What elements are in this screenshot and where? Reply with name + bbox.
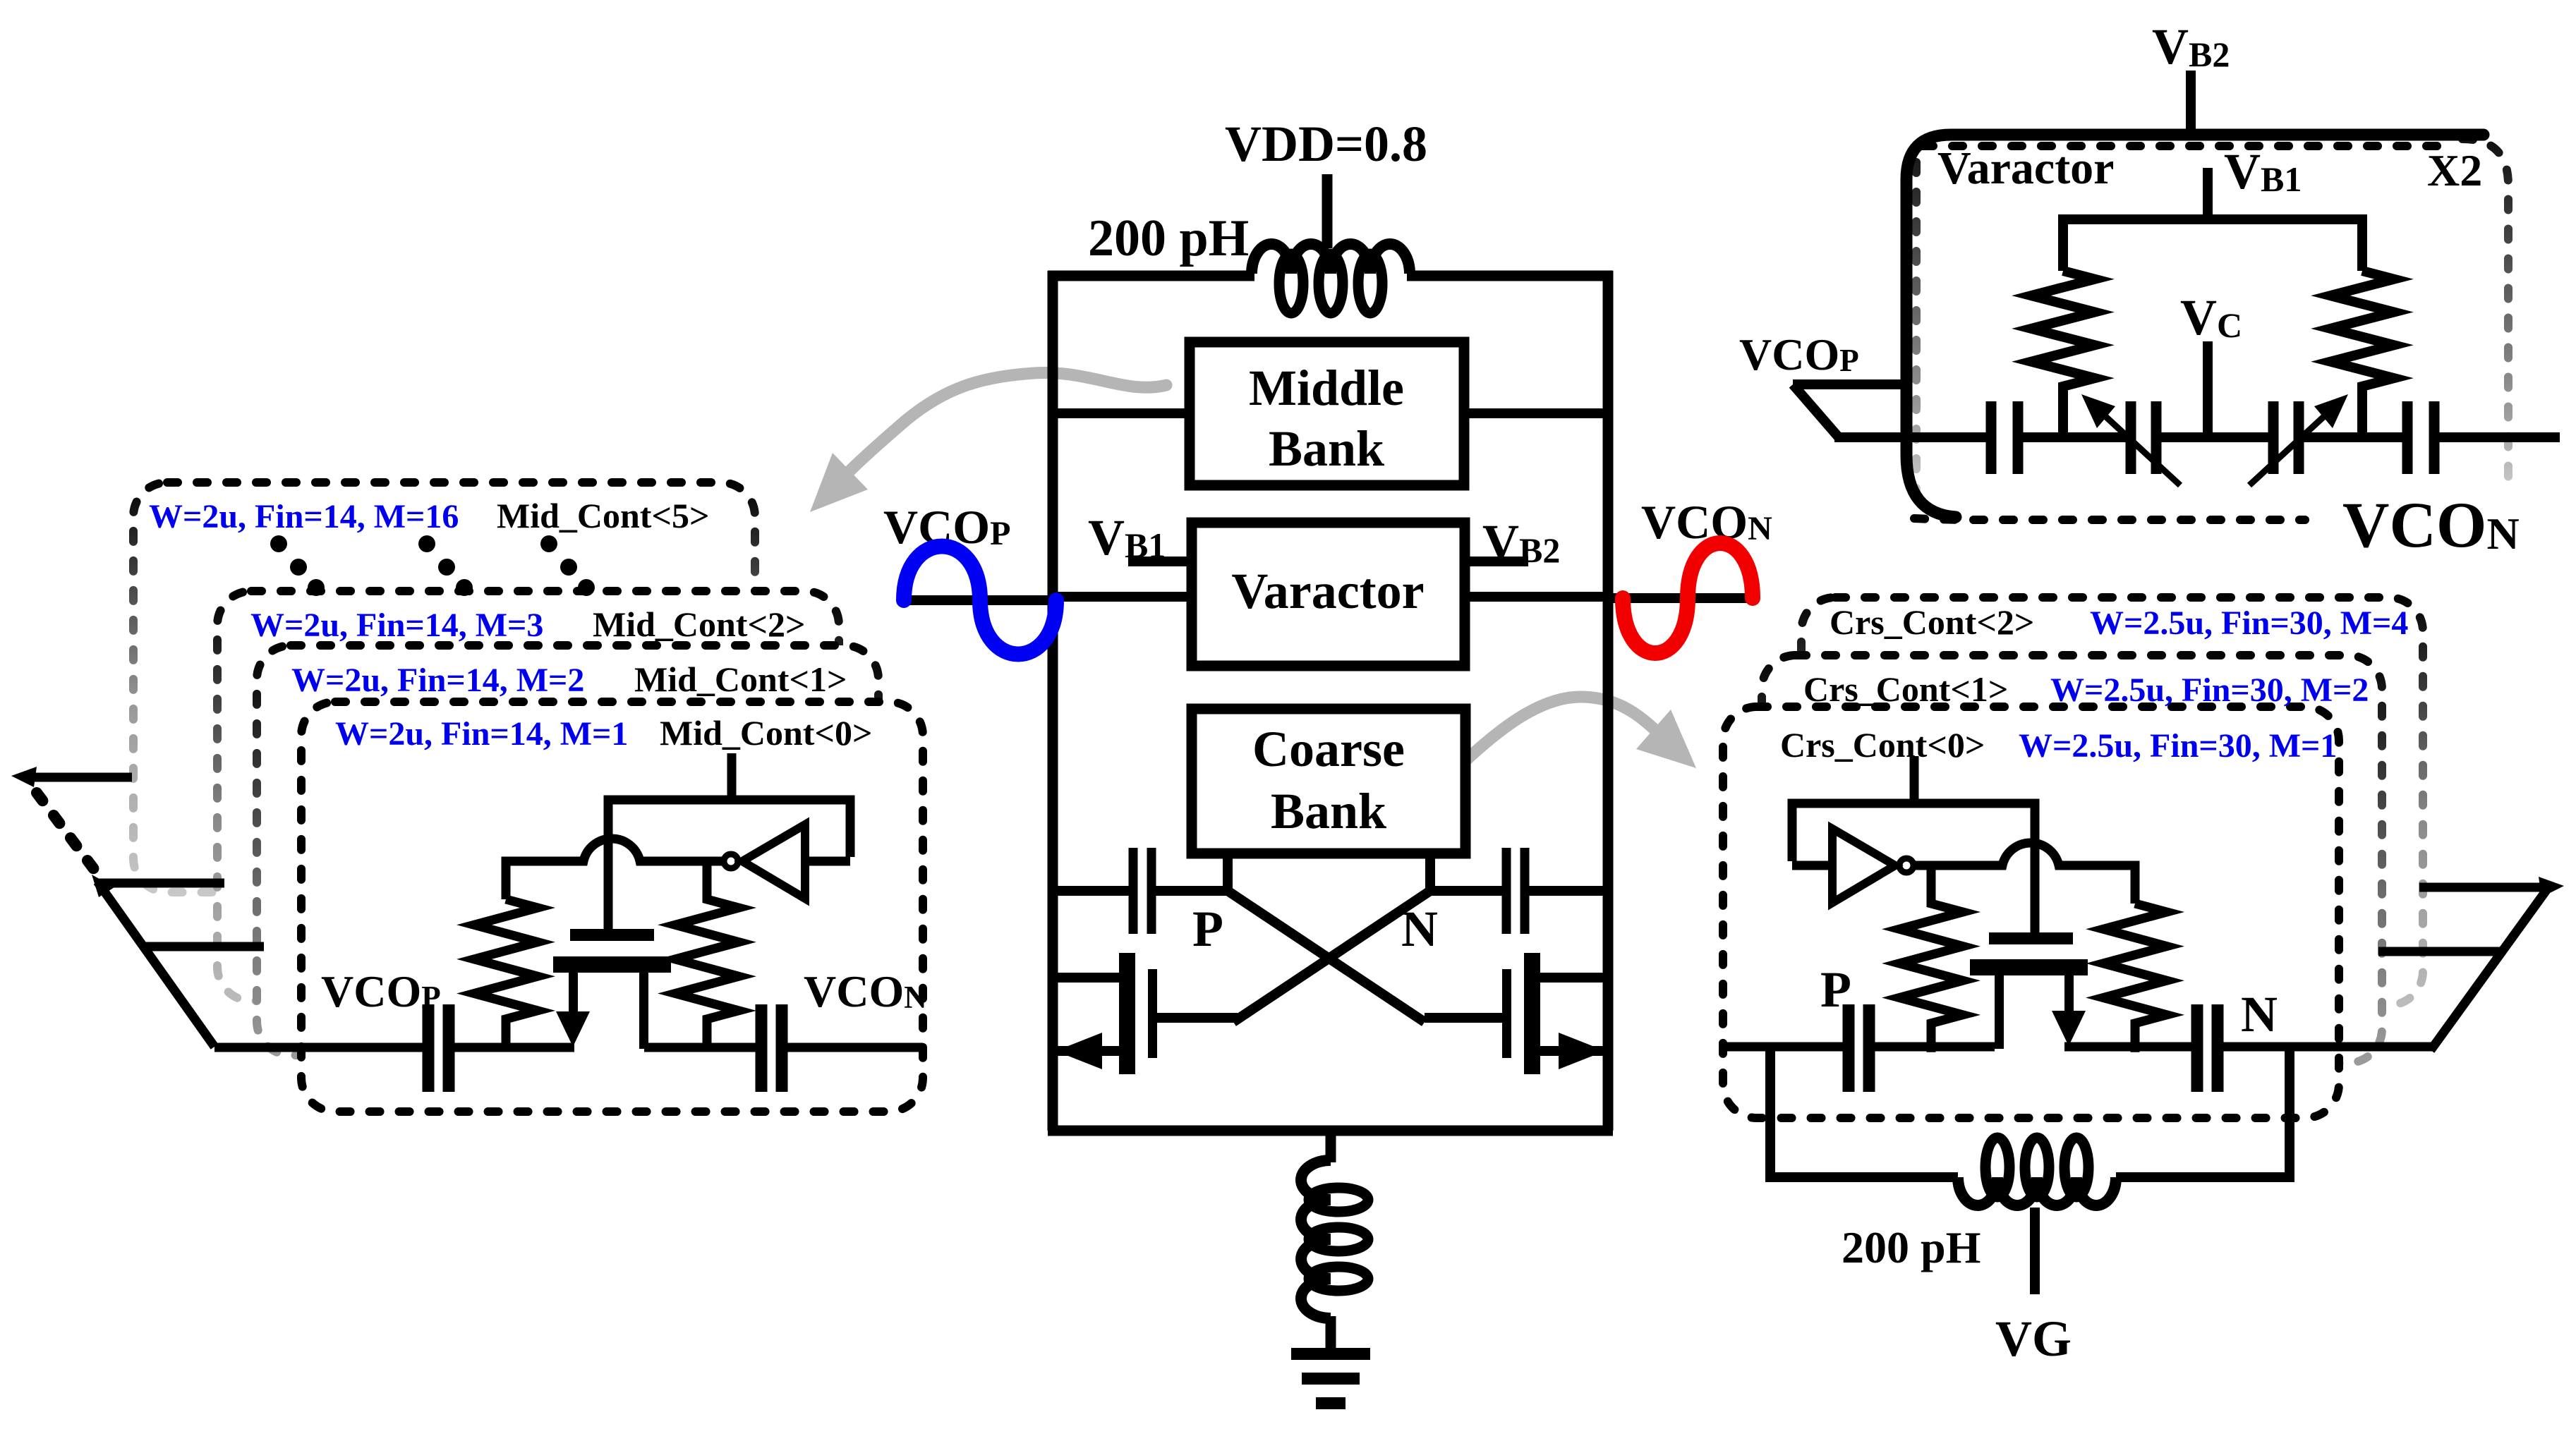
dotted continuation <box>37 793 94 869</box>
wire N drop <box>2116 1047 2290 1177</box>
coupling cap CN <box>756 1004 768 1092</box>
Coarse Bank block <box>1192 709 1465 853</box>
resistor R3 <box>1899 865 1963 1052</box>
inverter input wire <box>1792 861 1835 870</box>
dashed under top edge <box>1923 142 2455 150</box>
main wire N side <box>2064 1042 2191 1052</box>
control top wire <box>1792 803 2035 935</box>
svg-text:Crs_Cont<1>: Crs_Cont<1> <box>1803 669 2008 709</box>
VCON node wire <box>1608 593 1757 603</box>
bus fan-out to middle-bank cells <box>28 777 264 1047</box>
resistor R5 <box>2031 271 2095 418</box>
main wire VCOP side <box>214 1043 423 1052</box>
bias bracket <box>2063 219 2362 271</box>
cap CP (main) <box>1053 848 1228 934</box>
main wire P side <box>1723 1042 1843 1052</box>
arrowhead of right gray arrow <box>1636 710 1696 768</box>
svg-text:P: P <box>1820 961 1851 1018</box>
VCOP node wire <box>904 595 1053 605</box>
tuning inductor loop to VG <box>1770 1047 2290 1294</box>
arrow tip on taper <box>92 875 114 897</box>
svg-text:W=2u, Fin=14, M=1: W=2u, Fin=14, M=1 <box>335 715 628 753</box>
svg-text:X2: X2 <box>2427 145 2482 195</box>
resistor R6 <box>2330 271 2394 418</box>
arrow tip on stub 5 <box>11 767 37 787</box>
wire stub to cell 2 <box>99 879 224 888</box>
varactor V1 arrow <box>2081 394 2115 428</box>
wire P drop <box>1770 1047 1958 1177</box>
svg-text:Varactor: Varactor <box>1937 142 2114 194</box>
cell box Mid_Cont<0> <box>301 702 923 1112</box>
coupling cap CP2 <box>1843 1004 1855 1092</box>
coupling cap CP <box>423 1004 435 1092</box>
bus taper diagonal <box>97 882 214 1047</box>
resistor R2 <box>675 861 739 1048</box>
svg-text:Varactor: Varactor <box>1231 563 1424 619</box>
bottom wire <box>1048 1126 1613 1136</box>
svg-text:W=2.5u, Fin=30, M=2: W=2.5u, Fin=30, M=2 <box>2050 671 2369 709</box>
inverter I2 <box>1832 829 1895 903</box>
Varactor X2 detail cell <box>1906 135 2508 520</box>
varactor V2 <box>2268 401 2279 474</box>
tail stub <box>1326 1131 1336 1162</box>
X2 capacitor chain <box>1991 398 2560 485</box>
Mid cell internal circuit <box>214 753 923 1092</box>
wire stub to cell 5 <box>28 773 132 782</box>
svg-text:Mid_Cont<5>: Mid_Cont<5> <box>497 496 709 535</box>
tail inductor <box>1301 1160 1368 1318</box>
Middle Bank block <box>1190 342 1464 485</box>
cell box Crs_Cont<1> <box>1762 655 2382 1063</box>
svg-text:Bank: Bank <box>1269 420 1384 477</box>
svg-text:VDD=0.8: VDD=0.8 <box>1225 116 1427 172</box>
callout arrow to Middle Bank detail <box>848 373 1166 473</box>
svg-text:P: P <box>1192 901 1223 957</box>
inverter I1 <box>742 825 805 899</box>
Mid_Cont<0> control stub <box>727 753 737 804</box>
VDD stub <box>1322 174 1333 248</box>
svg-text:Bank: Bank <box>1271 783 1386 839</box>
transistor M1 <box>1053 953 1157 1074</box>
resistor R4 <box>2103 904 2167 1052</box>
svg-text:Crs_Cont<0>: Crs_Cont<0> <box>1780 725 1985 765</box>
varactor V1 <box>2126 401 2136 474</box>
svg-text:200 pH: 200 pH <box>1842 1222 1981 1272</box>
bus fan-in from coarse-bank cells <box>2339 887 2548 1050</box>
ground stub <box>1326 1316 1336 1350</box>
wire middle bank row <box>1053 408 1190 418</box>
dashed cell outline bottom <box>1914 518 2305 520</box>
resistor R1 <box>474 899 538 1048</box>
svg-text:Mid_Cont<2>: Mid_Cont<2> <box>593 604 805 644</box>
cell box Crs_Cont<2> <box>1801 597 2423 1005</box>
coarse bank stubs <box>1223 853 1233 896</box>
svg-text:W=2u, Fin=14, M=3: W=2u, Fin=14, M=3 <box>250 607 543 644</box>
arrow tip on coarse taper <box>2539 877 2564 897</box>
svg-text:W=2u, Fin=14, M=16: W=2u, Fin=14, M=16 <box>149 498 459 535</box>
svg-text:Mid_Cont<0>: Mid_Cont<0> <box>660 713 872 753</box>
red sine VCON <box>1623 543 1753 653</box>
Varactor block <box>1192 523 1465 666</box>
varactor V2 arrow <box>2314 394 2348 428</box>
svg-text:W=2.5u, Fin=30, M=4: W=2.5u, Fin=30, M=4 <box>2090 604 2408 642</box>
svg-text:Middle: Middle <box>1249 360 1404 416</box>
transistor M2 <box>1502 953 1608 1074</box>
cell box Mid_Cont<2> <box>217 591 839 1001</box>
ground symbol <box>1291 1348 1370 1409</box>
cell box Crs_Cont<0> <box>1723 707 2339 1118</box>
svg-text:W=2.5u, Fin=30, M=1: W=2.5u, Fin=30, M=1 <box>2019 727 2337 765</box>
svg-text:Mid_Cont<1>: Mid_Cont<1> <box>634 659 847 699</box>
VB1 stub (X2) <box>2203 168 2213 224</box>
MOS varactor M3 <box>1970 932 2088 1049</box>
inductor L2 (200 pH) <box>1958 1177 2116 1205</box>
solid cell border <box>1906 135 2484 517</box>
VCOP bus taper (X2) <box>1793 384 1986 437</box>
inverter output wire with crossover hump <box>1913 843 2135 904</box>
blue sine VCOP <box>904 547 1056 655</box>
coupling cap CN2 <box>2191 1004 2203 1092</box>
VB2 stub <box>1465 557 1528 566</box>
dashed cell outline right (fading) <box>2462 139 2508 480</box>
VB1 stub <box>1128 557 1192 566</box>
cap C1 <box>1986 401 1997 474</box>
cap C2 <box>2402 401 2413 474</box>
arrowhead of left gray arrow <box>810 453 868 512</box>
inverter output wire with crossover hump <box>506 839 724 899</box>
resistor R6 lead <box>2357 398 2367 437</box>
cell box Mid_Cont<1> <box>257 645 878 1055</box>
left tank rail <box>1048 271 1058 1131</box>
resistor R5 lead <box>2058 398 2068 437</box>
cap CN (main) <box>1430 848 1608 934</box>
svg-text:W=2u, Fin=14, M=2: W=2u, Fin=14, M=2 <box>291 662 584 699</box>
MOS varactor M0 <box>553 929 671 1049</box>
inductor L1 (200 pH top) <box>1252 244 1410 313</box>
wire stub to cell 1 <box>2378 947 2503 956</box>
main wire VCON side <box>644 1043 756 1052</box>
VG stub <box>2030 1208 2040 1294</box>
inverter input wire <box>809 857 850 866</box>
svg-text:N: N <box>2241 986 2278 1042</box>
callout arrow to Coarse Bank detail <box>1461 697 1667 765</box>
cross-coupling wires <box>1157 891 1502 1022</box>
bus taper diagonal <box>2431 887 2548 1050</box>
wire stub to cell 2 <box>2419 883 2547 892</box>
wire stub to cell 1 <box>143 942 264 951</box>
wire from cell 0 <box>2339 1042 2433 1052</box>
VB2 stub (X2) <box>2186 71 2196 134</box>
cell box Mid_Cont<5> <box>133 482 755 892</box>
wire varactor row <box>1053 592 1192 602</box>
VC stub <box>2203 341 2213 437</box>
ellipsis dots <box>270 535 595 596</box>
Crs_Cont<0> control stub <box>1910 756 1919 808</box>
svg-text:Coarse: Coarse <box>1252 721 1405 777</box>
svg-text:200 pH: 200 pH <box>1088 209 1249 267</box>
top wire <box>1048 271 1254 281</box>
svg-text:Crs_Cont<2>: Crs_Cont<2> <box>1830 602 2034 642</box>
svg-text:VG: VG <box>1995 1311 2072 1367</box>
control top wire <box>608 800 850 935</box>
right tank rail <box>1603 271 1614 1131</box>
Coarse cell internal circuit <box>1723 756 2340 1092</box>
